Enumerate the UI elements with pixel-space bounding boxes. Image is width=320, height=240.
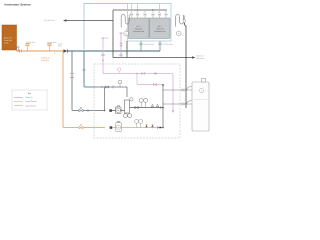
valve V-104 on x=72 drop [70, 74, 73, 78]
svg-text:T-100: T-100 [4, 43, 8, 45]
arrowhead exhaust [192, 56, 196, 59]
svg-text:Key: Key [28, 93, 31, 95]
svg-text:SV: SV [158, 12, 160, 14]
vent circle on filter outlet [130, 98, 133, 101]
wire: exhaust run to atmosphere y=57.5 [113, 57, 192, 59]
junction dots on air header [137, 9, 139, 11]
valve on pink run [142, 72, 146, 74]
svg-text:Incinerator System: Incinerator System [5, 3, 31, 7]
wire: teal drop x=84 to recirc line y=87 [84, 51, 96, 87]
pump/pot P-B (crown top, circle inside) [116, 121, 122, 131]
tiny valve on pink at teal crossing [102, 54, 104, 56]
skid boundary (dashed) [94, 64, 180, 138]
svg-text:CV: CV [143, 12, 145, 14]
check valve CV-1 [64, 49, 68, 52]
instrument above recirc [118, 80, 122, 84]
connection tick pink 2 [119, 32, 122, 34]
wire: combustion air header (dark) y=10 [113, 9, 167, 11]
valve V-102 (orange, actuated) [49, 46, 51, 51]
wire: valve drops into unit 2 [153, 4, 166, 14]
svg-text:VR-1: VR-1 [105, 38, 108, 40]
enclosure: incinerator package (light blue) [128, 4, 172, 42]
tick on suction run [87, 109, 89, 112]
pink branch to discharge header [137, 74, 162, 85]
valve V-101 (orange, actuated) [27, 46, 29, 51]
legend: vapour return [14, 105, 23, 107]
svg-text:No. 1: No. 1 [137, 26, 141, 28]
wire: waste oil supply header (orange) y=51 [17, 50, 64, 52]
valve on pink branch [153, 83, 156, 85]
instrument bubble unit 2 [176, 31, 181, 36]
incinerator unit 1 [129, 18, 150, 39]
svg-text:No. 2: No. 2 [158, 26, 162, 28]
instrument on pink line [118, 68, 121, 71]
tick before header [160, 106, 162, 109]
wire: fuel oil header (teal) y=51 [68, 50, 161, 52]
node at pink/dashed crossing [102, 60, 103, 61]
wire: orange drop to pump skid x=63 [63, 51, 105, 128]
legend: diesel [14, 101, 23, 103]
node: pink joins header [162, 84, 164, 86]
legend box [12, 90, 47, 110]
wire: diesel drop (slate) x=72 to train A suction [72, 51, 105, 111]
tick on B discharge [157, 126, 159, 129]
valve on recirc [105, 86, 108, 88]
svg-text:Valve: Valve [58, 45, 62, 47]
svg-text:BV: BV [151, 12, 153, 14]
incinerator unit 2 [150, 18, 171, 39]
outlet fitting cluster at tank nozzle [17, 48, 19, 51]
valve row unit 2 [152, 14, 167, 16]
connection tick pink 1 [101, 37, 104, 39]
svg-text:NC: NC [54, 53, 56, 55]
train B discharge line [112, 127, 158, 129]
PSV pair B (dark) [145, 125, 153, 128]
wire: tank fill nozzle 1 y=90 [163, 89, 188, 91]
tank T-200 recovered oil tank [192, 78, 209, 131]
shutoff valve unit 1 [140, 43, 142, 45]
tiny valve at pink 2 end [120, 54, 122, 56]
svg-text:Pump Skid: Pump Skid [41, 60, 49, 62]
pump P-A (PD pump: square + circle) [115, 106, 121, 114]
wire: exhaust duct down right side x=186 [184, 23, 186, 108]
svg-text:BV: BV [130, 12, 132, 14]
suction block valve dot [109, 109, 112, 112]
shutoff valve unit 2 [159, 43, 161, 45]
valve V-103 (orange, on bottom run) [79, 126, 83, 129]
pink vapour line 1: from connection tick down and across [103, 38, 173, 112]
gauge pair B [135, 119, 139, 123]
wire: flue gas recirculation line with arrow y=20.5 [64, 10, 113, 21]
flow arrow on pink run [153, 72, 156, 74]
pigtail seal loop unit 2 [176, 15, 185, 27]
vent fitting on loop outlet [183, 20, 186, 23]
splash dome nozzle 1 [187, 87, 196, 90]
pigtail seal loop unit 1 [121, 15, 129, 28]
discharge header to tank x=163 [162, 85, 164, 128]
train A discharge line [112, 108, 163, 111]
arrowhead into header [160, 126, 163, 128]
wire: tank fill nozzle 2 y=104 [163, 103, 188, 105]
wire: dark vertical x=113 to exhaust run [112, 21, 114, 58]
arrowhead pink down [172, 110, 174, 113]
wire: fuel risers to unit shutoff valves [141, 41, 160, 51]
wire: diesel startup riser (light blue) x=84 with top run [84, 4, 128, 52]
wire: dark vertical x=127 blue box to exhaust run [126, 41, 128, 58]
tick on riser [83, 69, 86, 71]
svg-text:CV: CV [164, 12, 166, 14]
train A recirc corner down to filter [126, 87, 128, 97]
valve row unit 1 [130, 14, 146, 16]
node on header [152, 9, 154, 11]
gauge pair A [139, 98, 143, 102]
valve on pink 2 [120, 43, 123, 46]
discharge valve A1 [135, 106, 138, 108]
splash dome nozzle 2 [187, 101, 196, 104]
legend: waste oil [14, 96, 23, 98]
wire: valve drops into unit 1 [132, 4, 146, 14]
node: exhaust tee [185, 57, 187, 59]
filter housing F-A [124, 100, 132, 118]
valve V-105 on train A suction run [79, 109, 83, 112]
svg-text:Check: Check [58, 44, 63, 46]
tank T-100 waste oil feed tank [2, 25, 17, 50]
instrument bubble unit 1 [124, 31, 129, 36]
arrowhead flue gas [63, 19, 66, 22]
pink vapour line 2: x=121 [120, 33, 122, 58]
PSV triangles A [151, 104, 158, 106]
wire: recirc return to suction x=104.5 [104, 87, 106, 111]
svg-text:SV: SV [136, 12, 138, 14]
suction block valve dot B [110, 126, 113, 129]
